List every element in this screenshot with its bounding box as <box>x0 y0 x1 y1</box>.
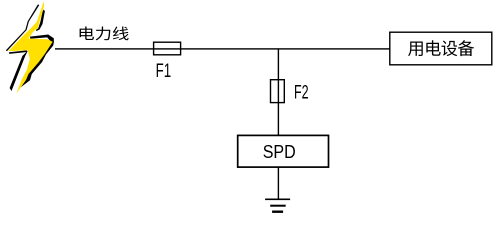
wire: vertical branch to SPD <box>278 49 279 136</box>
fuse F1 <box>154 42 181 55</box>
fuse F2 <box>271 80 285 103</box>
lightning bolt (surge source) <box>6 2 54 94</box>
label 电力线 (power line) <box>80 26 129 40</box>
wire: SPD to ground <box>278 167 279 199</box>
box: SPD (surge protective device) <box>238 135 329 167</box>
ground symbol <box>265 199 290 201</box>
wire: main horizontal power line <box>55 48 390 49</box>
svg-text:SPD: SPD <box>263 142 296 162</box>
box: 用电设备 (electric equipment) <box>390 32 492 65</box>
svg-text:F1: F1 <box>156 60 172 82</box>
svg-text:F2: F2 <box>294 82 309 104</box>
